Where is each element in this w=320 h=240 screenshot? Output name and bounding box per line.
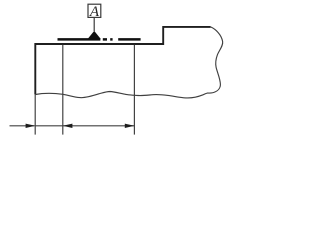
bottom break line (freehand wavy) <box>35 92 207 98</box>
arrowhead pointing right at x=134 <box>125 124 135 128</box>
leader line from datum frame to triangle <box>93 17 95 31</box>
part outline: left edge, top surface, step, upper face <box>35 27 210 95</box>
dimension line outside segment left <box>10 125 35 127</box>
arrowhead pointing left at x=63 <box>63 124 73 128</box>
extension line at x=35 (below part) <box>34 94 36 134</box>
dimension line long segment <box>63 125 135 127</box>
thick chain line segment 1 (datum target extent) <box>58 38 101 41</box>
extension line at x=63 (datum zone left) <box>62 45 64 135</box>
arrowhead pointing right at x=35 <box>26 124 36 128</box>
thick chain line segment 2 <box>118 38 140 41</box>
thick chain line dot <box>110 38 112 41</box>
datum target triangle (filled) <box>88 31 101 39</box>
extension line at x=134 (datum zone right) <box>133 45 135 135</box>
dimension line between extension lines <box>35 125 63 127</box>
right break line (freehand) <box>207 27 223 93</box>
datum frame box A <box>88 4 101 17</box>
thick chain line dash <box>103 38 107 41</box>
